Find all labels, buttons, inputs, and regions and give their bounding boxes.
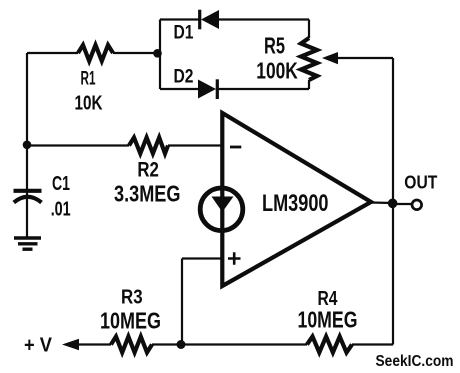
resistor R4 [307, 337, 352, 353]
wire R5 right leg [308, 20, 310, 90]
svg-text:3.3MEG: 3.3MEG [114, 181, 181, 207]
svg-text:R1: R1 [81, 68, 96, 89]
svg-text:OUT: OUT [404, 172, 437, 192]
wire R5 wiper arm [337, 57, 393, 59]
wire to OUT terminal [393, 203, 411, 205]
op-amp U1 LM3900 triangle [222, 113, 371, 286]
+V supply arrowhead [62, 339, 79, 350]
wire plus input vertical [182, 259, 222, 345]
node bottom junction [177, 340, 186, 349]
resistor R3 [111, 337, 152, 353]
svg-text:10MEG: 10MEG [100, 308, 161, 334]
wire D2 bottom rail [160, 88, 309, 90]
current source arrow [212, 197, 234, 213]
wire diode block left vertical [159, 20, 161, 90]
wire D1 top rail [160, 18, 309, 20]
svg-text:10K: 10K [75, 93, 103, 115]
svg-text:10MEG: 10MEG [298, 307, 358, 333]
svg-text:.01: .01 [51, 199, 71, 221]
svg-text:R5: R5 [264, 32, 285, 58]
diode D1 [200, 10, 219, 30]
plus input pin [228, 252, 241, 264]
wire left vertical rail [26, 53, 28, 237]
capacitor C1 [14, 191, 42, 203]
wire top-left horizontal from left rail to diode node [27, 52, 160, 54]
resistor R2 [129, 138, 168, 154]
wire bottom rail [79, 343, 393, 345]
svg-text:+ V: + V [24, 335, 53, 357]
OUT terminal open circle [412, 200, 422, 210]
wire inverting input (R2 wire) [27, 144, 222, 146]
svg-text:SeekIC.com: SeekIC.com [376, 353, 454, 370]
wiper arrowhead [322, 52, 338, 64]
current source circle of Norton amp [200, 188, 243, 231]
wire op-amp output to right rail [369, 201, 393, 204]
resistor R1 [78, 45, 113, 61]
svg-text:C1: C1 [52, 173, 70, 195]
svg-text:D1: D1 [174, 23, 194, 44]
ground [14, 238, 41, 249]
node output junction [388, 199, 398, 209]
node A junction at R1/diode block [153, 49, 162, 58]
svg-text:R3: R3 [121, 286, 143, 308]
potentiometer R5 [301, 38, 317, 80]
svg-text:R2: R2 [137, 158, 159, 181]
minus input pin [230, 146, 241, 149]
diode D2 [198, 79, 217, 99]
wire right vertical rail [392, 58, 394, 345]
svg-text:D2: D2 [174, 67, 194, 88]
svg-text:LM3900: LM3900 [262, 190, 329, 217]
svg-text:100K: 100K [256, 57, 298, 83]
node junction left (C1 tap) [23, 141, 32, 150]
